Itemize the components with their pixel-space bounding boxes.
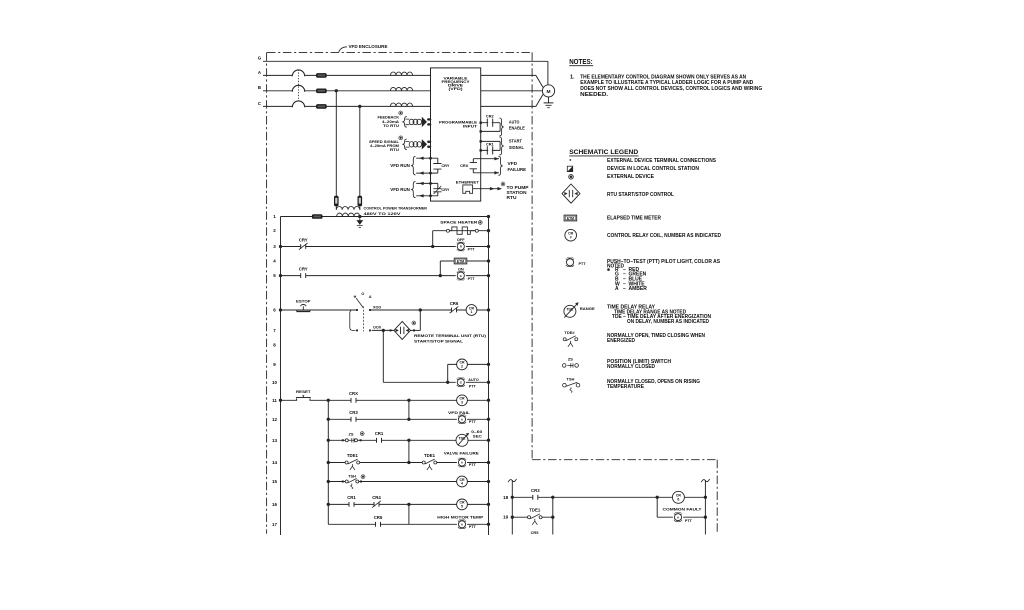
svg-text:VFD FAIL: VFD FAIL xyxy=(448,410,471,415)
svg-text:EXTERNAL DEVICE TERMINAL CONNE: EXTERNAL DEVICE TERMINAL CONNECTIONS xyxy=(607,158,716,164)
svg-text:REMOTE TERMINAL UNIT (RTU): REMOTE TERMINAL UNIT (RTU) xyxy=(414,333,487,338)
svg-text:(VFD): (VFD) xyxy=(449,87,464,91)
svg-text:B: B xyxy=(258,85,261,90)
svg-text:14: 14 xyxy=(272,460,278,465)
svg-text:NEEDED.: NEEDED. xyxy=(580,92,609,98)
svg-text:DEVICE IN LOCAL CONTROL STATIO: DEVICE IN LOCAL CONTROL STATION xyxy=(607,166,699,172)
svg-text:RTU START/STOP CONTROL: RTU START/STOP CONTROL xyxy=(607,192,675,198)
svg-text:CR5: CR5 xyxy=(531,530,540,535)
svg-text:SPACE HEATER: SPACE HEATER xyxy=(440,220,477,225)
svg-text:INPUT: INPUT xyxy=(463,125,478,129)
svg-text:TDE: TDE xyxy=(459,437,467,441)
svg-text:5: 5 xyxy=(461,505,463,509)
svg-text:4: 4 xyxy=(461,482,463,486)
svg-text:PTT: PTT xyxy=(579,262,587,266)
svg-text:VFD: VFD xyxy=(508,161,518,166)
svg-text:AUTO: AUTO xyxy=(468,377,479,382)
svg-text:16: 16 xyxy=(272,502,278,507)
svg-text:CR2: CR2 xyxy=(486,113,495,118)
svg-text:ON DELAY, NUMBER AS INDICATED: ON DELAY, NUMBER AS INDICATED xyxy=(627,319,709,325)
svg-text:480V TO 120V: 480V TO 120V xyxy=(364,212,402,216)
svg-text:AUTO: AUTO xyxy=(509,119,520,124)
svg-text:ENABLE: ENABLE xyxy=(509,126,525,131)
svg-text:O: O xyxy=(361,292,364,296)
svg-text:CRY: CRY xyxy=(441,163,449,168)
svg-text:RESET: RESET xyxy=(296,389,311,394)
svg-text:PTT: PTT xyxy=(468,277,476,281)
svg-text:13: 13 xyxy=(272,438,278,443)
svg-text:NORMALLY CLOSED: NORMALLY CLOSED xyxy=(607,364,655,370)
svg-text:PTT: PTT xyxy=(468,248,476,252)
svg-text:A: A xyxy=(369,295,372,299)
svg-text:CR3: CR3 xyxy=(531,488,540,493)
svg-text:CR5: CR5 xyxy=(374,515,383,520)
svg-text:–: – xyxy=(623,286,626,292)
svg-text:NOTES:: NOTES: xyxy=(569,59,593,66)
svg-text:1.: 1. xyxy=(570,74,575,80)
svg-text:FAILURE: FAILURE xyxy=(508,167,527,172)
svg-text:PTT: PTT xyxy=(685,519,693,523)
svg-text:HIGH MOTOR TEMP: HIGH MOTOR TEMP xyxy=(437,515,483,520)
svg-text:CONTROL POWER TRANSFORMER: CONTROL POWER TRANSFORMER xyxy=(364,207,428,211)
svg-text:CR1: CR1 xyxy=(375,431,384,436)
svg-text:CRX: CRX xyxy=(349,391,358,396)
svg-text:TDE: TDE xyxy=(566,308,574,312)
svg-text:VFD ENCLOSURE: VFD ENCLOSURE xyxy=(349,44,388,49)
svg-text:TSH: TSH xyxy=(348,473,356,478)
svg-text:XOO: XOO xyxy=(373,305,381,309)
svg-text:CR4: CR4 xyxy=(372,495,381,500)
svg-text:START: START xyxy=(509,139,522,144)
svg-text:PTT: PTT xyxy=(469,525,477,529)
svg-text:ON: ON xyxy=(458,266,464,271)
svg-text:2: 2 xyxy=(461,365,463,369)
svg-text:RTU: RTU xyxy=(507,195,517,200)
svg-text:A: A xyxy=(615,286,619,292)
svg-text:RTU: RTU xyxy=(390,147,399,152)
svg-text:ZS: ZS xyxy=(568,357,573,362)
svg-text:VALVE FAILURE: VALVE FAILURE xyxy=(444,450,479,455)
svg-text:15: 15 xyxy=(272,479,278,484)
svg-text:VFD RUN: VFD RUN xyxy=(390,187,410,192)
svg-text:12: 12 xyxy=(272,417,278,422)
svg-text:CRX: CRX xyxy=(460,163,469,168)
svg-text:SIGNAL: SIGNAL xyxy=(509,145,524,150)
svg-text:CRY: CRY xyxy=(441,187,449,192)
svg-text:TO RTU: TO RTU xyxy=(383,123,399,128)
svg-text:OFF: OFF xyxy=(457,237,465,242)
svg-text:CRY: CRY xyxy=(299,266,308,271)
svg-text:ENERGIZED: ENERGIZED xyxy=(607,338,635,344)
svg-text:PUSH–TO–TEST (PTT) PILOT LIGHT: PUSH–TO–TEST (PTT) PILOT LIGHT, COLOR AS xyxy=(607,259,720,265)
svg-text:17: 17 xyxy=(272,522,278,527)
svg-text:PTT: PTT xyxy=(469,385,477,389)
svg-text:ESTOP: ESTOP xyxy=(296,299,311,304)
svg-text:TDE1: TDE1 xyxy=(424,453,436,458)
svg-text:ZS: ZS xyxy=(349,431,354,436)
svg-text:TDE#: TDE# xyxy=(564,330,575,335)
svg-text:1: 1 xyxy=(471,310,473,314)
svg-text:#: # xyxy=(570,235,572,239)
svg-text:CR1: CR1 xyxy=(347,495,356,500)
svg-text:6: 6 xyxy=(677,497,679,501)
svg-text:ELAPSED TIME METER: ELAPSED TIME METER xyxy=(607,215,661,221)
svg-text:ETHERNET: ETHERNET xyxy=(456,179,480,184)
svg-text:SCHEMATIC LEGEND: SCHEMATIC LEGEND xyxy=(569,149,638,156)
svg-text:SEC: SEC xyxy=(473,434,482,439)
svg-text:PTT: PTT xyxy=(469,420,477,424)
svg-text:CR6: CR6 xyxy=(450,301,459,306)
svg-text:10: 10 xyxy=(272,380,278,385)
svg-text:TSH: TSH xyxy=(566,377,574,382)
svg-text:CR1: CR1 xyxy=(486,142,495,147)
svg-text:CRY: CRY xyxy=(299,237,308,242)
svg-text:AMBER: AMBER xyxy=(629,286,648,292)
svg-text:START/STOP SIGNAL: START/STOP SIGNAL xyxy=(414,339,464,344)
svg-text:G: G xyxy=(258,56,262,61)
svg-text:TDE1: TDE1 xyxy=(347,453,359,458)
svg-text:VFD RUN: VFD RUN xyxy=(390,163,410,168)
svg-text:3: 3 xyxy=(461,400,463,404)
svg-text:EXTERNAL DEVICE: EXTERNAL DEVICE xyxy=(607,174,654,180)
svg-text:M: M xyxy=(547,89,551,95)
svg-text:H: H xyxy=(354,295,357,299)
svg-text:11: 11 xyxy=(272,398,277,403)
svg-text:19: 19 xyxy=(503,515,509,520)
svg-text:CONTROL RELAY COIL, NUMBER AS: CONTROL RELAY COIL, NUMBER AS INDICATED xyxy=(607,233,721,239)
svg-text:TEMPERATURE: TEMPERATURE xyxy=(607,384,644,390)
svg-text:PTT: PTT xyxy=(469,463,477,467)
svg-text:ETM: ETM xyxy=(567,216,574,220)
svg-text:ETM: ETM xyxy=(457,259,464,263)
svg-text:CR3: CR3 xyxy=(349,410,358,415)
svg-text:COMMON FAULT: COMMON FAULT xyxy=(663,507,703,512)
svg-text:OOX: OOX xyxy=(373,326,382,330)
svg-text:18: 18 xyxy=(503,495,509,500)
svg-text:RANGE: RANGE xyxy=(580,306,595,311)
svg-text:TDE1: TDE1 xyxy=(529,508,541,513)
